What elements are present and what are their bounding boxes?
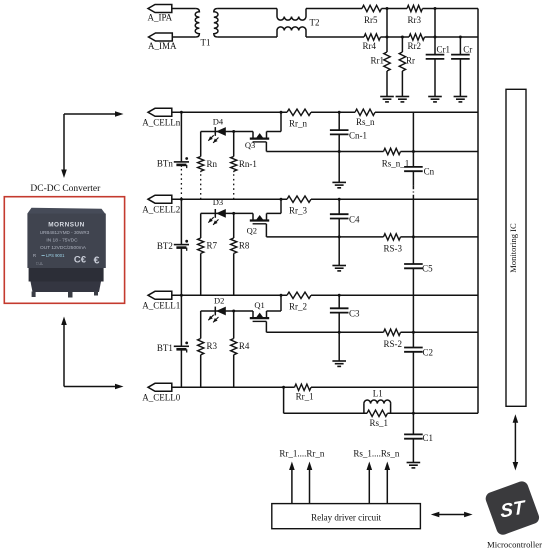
- svg-text:A_IPA: A_IPA: [148, 13, 173, 23]
- svg-text:BT2: BT2: [157, 241, 173, 251]
- svg-text:Q1: Q1: [254, 300, 264, 310]
- svg-text:R3: R3: [207, 341, 218, 351]
- svg-text:MORNSUN: MORNSUN: [48, 221, 85, 228]
- svg-text:URB4812YMD - 30WR3: URB4812YMD - 30WR3: [40, 230, 90, 235]
- svg-text:Relay driver circuit: Relay driver circuit: [311, 512, 381, 522]
- svg-text:A_CELL1: A_CELL1: [142, 301, 180, 311]
- svg-text:€: €: [94, 255, 100, 267]
- svg-text:Rr1: Rr1: [371, 56, 385, 66]
- svg-text:R: R: [33, 253, 36, 258]
- svg-text:C€: C€: [74, 255, 87, 266]
- svg-text:□ △: □ △: [36, 261, 44, 266]
- svg-text:Q3: Q3: [245, 140, 255, 150]
- svg-text:Rr_2: Rr_2: [289, 302, 307, 312]
- svg-text:R7: R7: [207, 241, 218, 251]
- svg-text:L1: L1: [373, 389, 383, 399]
- svg-text:Cn: Cn: [424, 167, 435, 177]
- svg-text:Rr5: Rr5: [364, 15, 378, 25]
- svg-text:D2: D2: [214, 295, 224, 305]
- svg-text:Rr_n: Rr_n: [289, 119, 308, 129]
- svg-text:Microcontroller: Microcontroller: [487, 539, 542, 549]
- svg-text:Rr_3: Rr_3: [289, 205, 308, 215]
- svg-text:Rr_1....Rr_n: Rr_1....Rr_n: [279, 448, 325, 458]
- svg-text:T1: T1: [201, 38, 211, 48]
- svg-text:Monitoring IC: Monitoring IC: [508, 223, 518, 273]
- svg-text:D3: D3: [213, 197, 223, 207]
- svg-text:R4: R4: [239, 341, 250, 351]
- svg-text:OUT 12VDC/2500mA: OUT 12VDC/2500mA: [40, 245, 87, 251]
- svg-text:Rs_n: Rs_n: [356, 117, 375, 127]
- svg-text:Cr: Cr: [463, 45, 472, 55]
- svg-text:C1: C1: [423, 433, 434, 443]
- svg-text:Rn-1: Rn-1: [239, 159, 257, 169]
- svg-text:R8: R8: [239, 241, 250, 251]
- svg-text:RS-3: RS-3: [384, 244, 403, 254]
- svg-text:Rs_1: Rs_1: [370, 418, 389, 428]
- svg-text:C3: C3: [349, 309, 360, 319]
- svg-text:IN 18 - 75VDC: IN 18 - 75VDC: [46, 237, 78, 243]
- svg-text:Rr_1: Rr_1: [296, 392, 314, 402]
- svg-text:Rn: Rn: [207, 159, 218, 169]
- svg-text:A_IMA: A_IMA: [148, 41, 177, 51]
- svg-text:Cr1: Cr1: [437, 45, 451, 55]
- svg-text:Rr4: Rr4: [363, 41, 377, 51]
- svg-text:C5: C5: [422, 264, 433, 274]
- svg-text:Rr2: Rr2: [408, 41, 422, 51]
- svg-text:Cn-1: Cn-1: [349, 130, 367, 140]
- svg-text:Rr: Rr: [406, 56, 415, 66]
- svg-text:Rr3: Rr3: [408, 15, 422, 25]
- svg-text:BTn: BTn: [157, 158, 174, 168]
- svg-text:DC-DC Converter: DC-DC Converter: [30, 184, 101, 194]
- svg-text:A_CELLn: A_CELLn: [142, 118, 180, 128]
- svg-text:ST: ST: [500, 497, 526, 523]
- svg-text:Q2: Q2: [247, 225, 257, 235]
- svg-text:Rs_1....Rs_n: Rs_1....Rs_n: [353, 448, 400, 458]
- svg-text:BT1: BT1: [157, 343, 173, 353]
- svg-text:C2: C2: [423, 347, 434, 357]
- svg-text:RS-2: RS-2: [384, 339, 403, 349]
- svg-text:A_CELL0: A_CELL0: [142, 393, 180, 403]
- svg-text:T2: T2: [310, 18, 320, 28]
- svg-text:A_CELL2: A_CELL2: [142, 205, 180, 215]
- svg-text:C4: C4: [349, 215, 360, 225]
- svg-text:D4: D4: [213, 117, 224, 127]
- svg-text:⎓ LPS 9001: ⎓ LPS 9001: [42, 253, 66, 258]
